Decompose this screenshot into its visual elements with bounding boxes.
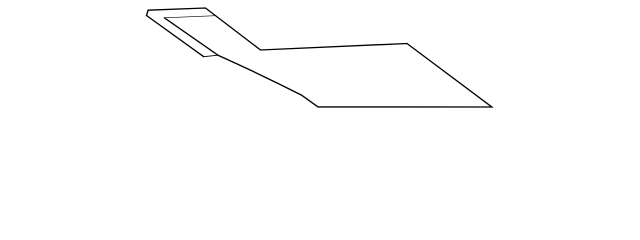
inner diagonal (edge face lower boundary) [164,18,218,55]
tip closing edge [204,55,218,57]
molding part outline drawing [0,0,640,120]
outer outline of molding panel [147,8,492,107]
thin inner top line (edge face upper boundary) [164,16,215,18]
outer lower diagonal of narrow end [147,16,204,57]
